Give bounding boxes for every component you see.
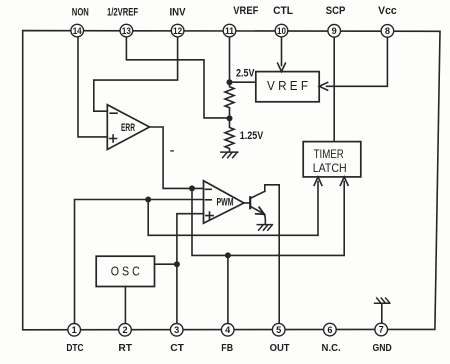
wire pin9 SCP down to TIMER LATCH top xyxy=(333,37,335,142)
pin 4 xyxy=(221,324,234,337)
scan speckle xyxy=(170,150,174,152)
svg-text:DTC: DTC xyxy=(66,343,83,354)
svg-text:N.C.: N.C. xyxy=(322,343,341,354)
wire DTC branch to TIMER LATCH arrow 1 xyxy=(148,182,318,236)
PWM - input 1 symbol xyxy=(206,188,212,190)
arrowhead into TIMER LATCH bottom left xyxy=(314,177,322,185)
svg-text:6: 6 xyxy=(327,325,332,335)
pin 14 xyxy=(71,24,84,37)
op-amp ERR triangle xyxy=(107,105,149,150)
OSC block xyxy=(96,256,154,286)
svg-text:11: 11 xyxy=(225,26,234,36)
pin 9 xyxy=(328,25,341,38)
svg-text:CTL: CTL xyxy=(273,5,293,17)
wire pin8 Vcc to VREF block right (arrow) xyxy=(327,37,388,86)
pin 7 xyxy=(375,323,388,336)
svg-text:Vcc: Vcc xyxy=(378,5,397,17)
svg-text:4: 4 xyxy=(225,325,231,335)
ground at transistor emitter xyxy=(257,225,272,231)
svg-text:13: 13 xyxy=(122,26,131,36)
svg-text:NON: NON xyxy=(72,7,89,19)
PWM - input 2 symbol xyxy=(206,199,212,201)
svg-text:1/2VREF: 1/2VREF xyxy=(107,7,138,19)
resistor R2 (midpoint to ground) xyxy=(225,118,234,151)
transistor Q1 emitter wire to ground xyxy=(264,214,265,224)
junction dot DTC line xyxy=(145,197,151,203)
svg-text:SCP: SCP xyxy=(326,5,346,17)
ground below R2 xyxy=(221,152,238,158)
pin 10 xyxy=(275,24,288,37)
arrowhead into TIMER LATCH bottom right xyxy=(340,177,348,185)
wire OSC output to CT node xyxy=(155,263,177,265)
wire pin2 RT to OSC bottom xyxy=(124,287,126,324)
pin 13 xyxy=(120,24,133,37)
transistor Q1 base bar xyxy=(249,197,251,208)
junction dot divider top 2.5V node xyxy=(227,79,233,85)
wire pin4 FB up to feedback node xyxy=(227,255,229,323)
svg-text:FB: FB xyxy=(221,343,233,354)
svg-text:12: 12 xyxy=(173,26,182,36)
wire pin11 VREF to divider top node xyxy=(229,37,231,80)
svg-text:TIMER: TIMER xyxy=(314,147,344,161)
svg-text:V R E F: V R E F xyxy=(267,79,308,93)
svg-text:PWM: PWM xyxy=(217,197,234,209)
comparator PWM triangle xyxy=(204,181,244,224)
transistor Q1 base wire from PWM output xyxy=(244,202,250,204)
pin 12 xyxy=(171,24,184,37)
pin 2 xyxy=(119,324,132,337)
wire pin12 INV to ERR - input xyxy=(94,37,178,111)
wire pin13 1/2VREF to divider midpoint xyxy=(126,37,226,118)
wire ERR output to PWM - input 1 xyxy=(150,127,204,188)
VREF block xyxy=(256,72,319,102)
IC package outline border xyxy=(23,31,440,330)
pin 3 xyxy=(170,324,183,337)
svg-text:8: 8 xyxy=(385,26,390,36)
svg-text:7: 7 xyxy=(379,325,384,335)
svg-text:1: 1 xyxy=(72,325,77,335)
svg-text:1.25V: 1.25V xyxy=(240,130,264,142)
svg-text:2.5V: 2.5V xyxy=(236,68,255,80)
arrowhead CTL into VREF top xyxy=(278,63,286,71)
svg-text:5: 5 xyxy=(276,325,281,335)
pin 5 xyxy=(272,323,285,336)
pin 11 xyxy=(223,24,236,37)
svg-text:INV: INV xyxy=(170,7,187,19)
pin 6 xyxy=(324,323,337,336)
wire ERR output branch to TIMER LATCH arrow 2 xyxy=(192,182,344,256)
svg-text:CT: CT xyxy=(170,343,184,354)
arrowhead Vcc into VREF right xyxy=(319,82,327,90)
svg-text:3: 3 xyxy=(174,325,179,335)
junction dot divider midpoint node xyxy=(227,115,233,121)
wire pin1 DTC to PWM - input 2 xyxy=(75,200,204,324)
svg-text:2: 2 xyxy=(122,325,127,335)
TIMER LATCH block xyxy=(303,142,361,177)
transistor Q1 collector diagonal xyxy=(251,191,265,198)
svg-text:9: 9 xyxy=(332,26,337,36)
svg-text:O S C: O S C xyxy=(111,264,140,278)
svg-text:10: 10 xyxy=(277,26,286,36)
svg-text:RT: RT xyxy=(118,343,132,354)
transistor Q1 emitter xyxy=(251,206,263,213)
ERR + input symbol xyxy=(110,135,117,142)
svg-text:LATCH: LATCH xyxy=(313,161,347,175)
wire pin14 NON to ERR + input xyxy=(78,37,107,137)
svg-text:OUT: OUT xyxy=(270,343,290,354)
svg-text:VREF: VREF xyxy=(233,5,258,17)
ERR - input symbol xyxy=(110,112,117,114)
junction dot ERR output line xyxy=(189,185,195,191)
arrowhead transistor emitter xyxy=(256,207,264,214)
svg-text:GND: GND xyxy=(373,343,392,354)
ground symbol above pin7 xyxy=(375,298,390,303)
junction dot FB node xyxy=(225,252,231,258)
wire pin10 CTL down to VREF block (arrow) xyxy=(281,37,283,66)
wire pin5 OUT to transistor collector xyxy=(265,185,279,324)
resistor R1 (2.5V to midpoint) xyxy=(225,82,234,118)
pin 1 xyxy=(68,324,81,337)
PWM + input symbol xyxy=(206,212,213,219)
svg-text:14: 14 xyxy=(73,26,83,36)
pin 8 xyxy=(381,25,394,38)
svg-text:ERR: ERR xyxy=(121,122,135,134)
wire pin7 GND stem xyxy=(381,305,383,324)
wire divider top node to VREF block left xyxy=(230,81,256,83)
wire pin3 CT to PWM + input xyxy=(177,214,204,324)
junction dot OSC-CT node xyxy=(174,261,180,267)
